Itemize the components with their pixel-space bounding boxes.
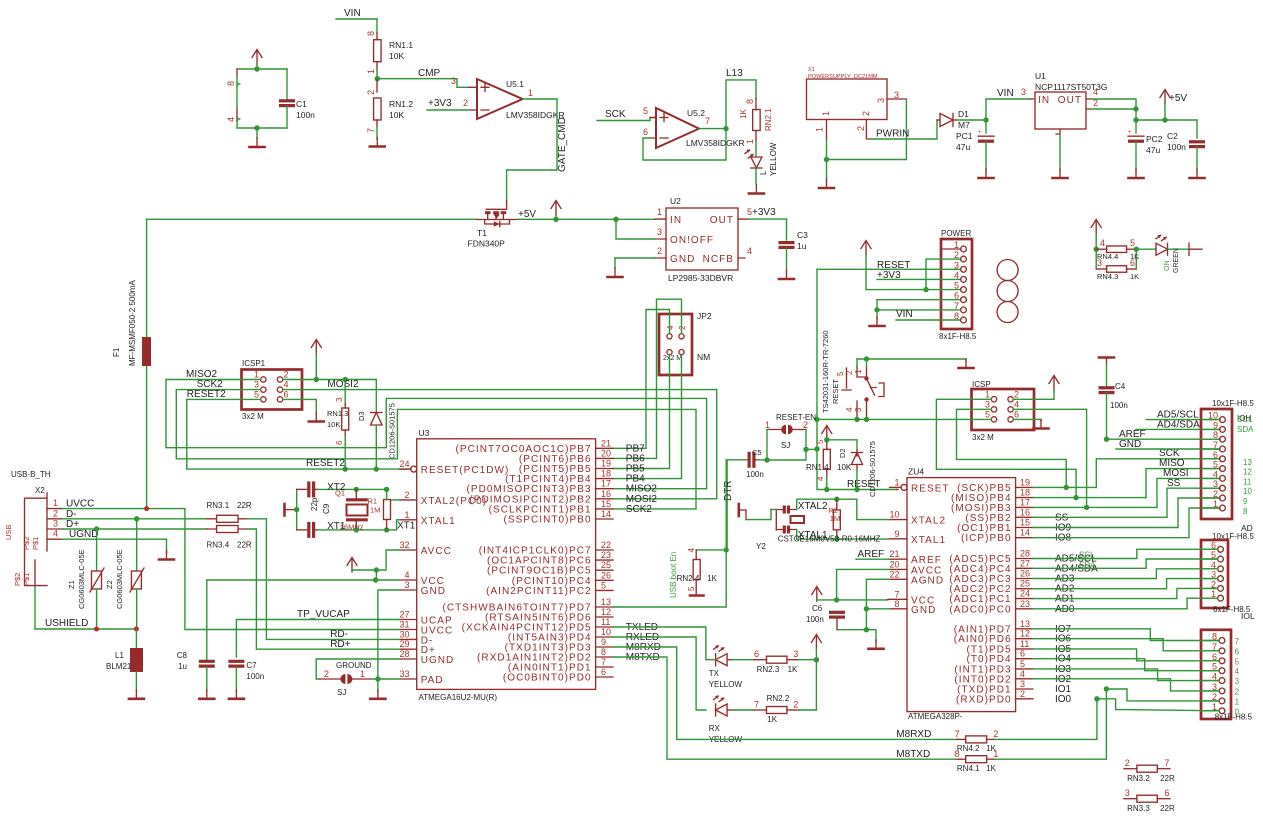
svg-text:RX: RX xyxy=(709,724,721,733)
wire ZU4 agnd xyxy=(864,579,890,632)
svg-text:U5.1: U5.1 xyxy=(506,79,524,89)
svg-text:8x1F-H8.5: 8x1F-H8.5 xyxy=(939,332,977,341)
net label AD5/SCL (hdr) xyxy=(1146,410,1220,421)
svg-text:4: 4 xyxy=(954,270,959,280)
svg-text:11: 11 xyxy=(601,617,610,627)
wire SCK2 loop xyxy=(176,390,696,509)
svg-text:Z1: Z1 xyxy=(67,580,76,589)
resistor RN4.3 xyxy=(1096,258,1139,281)
net label RESET (power hdr) xyxy=(817,260,941,271)
svg-text:M8RXD: M8RXD xyxy=(896,729,931,740)
ground L1 xyxy=(129,690,144,699)
svg-text:18: 18 xyxy=(1020,488,1030,498)
wire +5V rail right xyxy=(1133,117,1197,122)
svg-text:9: 9 xyxy=(1243,497,1248,506)
connector POWER 8x1F-H8.5 xyxy=(939,229,977,341)
wire button top gnd xyxy=(857,356,966,366)
net label AREF (zu4) xyxy=(856,549,890,560)
svg-text:RN2.1: RN2.1 xyxy=(764,108,773,131)
svg-text:IO0: IO0 xyxy=(1055,694,1072,705)
svg-text:33: 33 xyxy=(399,669,409,679)
svg-text:FDN340P: FDN340P xyxy=(468,239,506,249)
svg-text:10K: 10K xyxy=(837,463,852,472)
svg-text:8: 8 xyxy=(954,311,959,321)
power flag +5V (RN1.4) xyxy=(822,426,832,444)
svg-text:ICSP1: ICSP1 xyxy=(242,359,266,368)
svg-text:8: 8 xyxy=(1243,507,1248,516)
svg-text:GATE_CMD: GATE_CMD xyxy=(557,117,568,172)
svg-text:ZU4: ZU4 xyxy=(908,467,924,477)
wire AD1 net xyxy=(1033,588,1218,598)
svg-text:1K: 1K xyxy=(986,764,996,773)
ground PC2 xyxy=(1129,169,1144,178)
svg-text:4: 4 xyxy=(1093,87,1098,97)
svg-text:27: 27 xyxy=(399,610,409,620)
svg-text:SS: SS xyxy=(1167,478,1181,489)
svg-text:8: 8 xyxy=(366,31,376,36)
svg-text:2: 2 xyxy=(404,490,409,500)
resistor R2 xyxy=(828,499,840,539)
svg-text:1K: 1K xyxy=(767,715,777,724)
capacitor PC1 xyxy=(956,120,994,170)
mcu ZU4 ATMEGA328P xyxy=(889,467,1098,721)
svg-text:11: 11 xyxy=(1020,639,1029,649)
svg-text:VIN: VIN xyxy=(344,8,361,19)
resistor RN3.4 xyxy=(207,526,252,550)
svg-text:USB-B_TH: USB-B_TH xyxy=(11,470,51,479)
svg-text:3: 3 xyxy=(985,399,990,409)
svg-text:SDA: SDA xyxy=(1237,425,1254,434)
svg-text:16MHz: 16MHz xyxy=(340,523,364,532)
svg-text:OUT: OUT xyxy=(710,215,734,226)
svg-text:U3: U3 xyxy=(419,428,430,438)
ground X1 xyxy=(819,179,834,188)
svg-text:AREF: AREF xyxy=(858,549,885,560)
svg-text:P$1: P$1 xyxy=(22,573,31,586)
net label MISO2 (icsp1) xyxy=(166,369,261,380)
mounting hole 2 xyxy=(997,281,1018,302)
svg-text:CG0603MLC-05E: CG0603MLC-05E xyxy=(115,549,124,609)
svg-text:21: 21 xyxy=(601,438,611,448)
transistor T1 FDN340P xyxy=(468,201,517,249)
wire U2 gnd xyxy=(615,258,655,268)
svg-text:1K: 1K xyxy=(788,665,798,674)
svg-text:4: 4 xyxy=(845,407,854,412)
svg-text:UGND: UGND xyxy=(421,655,455,666)
svg-text:+3V3: +3V3 xyxy=(752,207,776,218)
node CMP junction xyxy=(375,70,380,81)
wire AD3 net xyxy=(1033,569,1218,579)
wire DTR xyxy=(723,460,740,550)
wire M8RXD xyxy=(613,647,957,740)
svg-text:(RXD)PD0: (RXD)PD0 xyxy=(956,694,1012,705)
svg-text:TS42031-160R-TR-7260: TS42031-160R-TR-7260 xyxy=(821,330,830,413)
svg-text:ATMEGA328P-: ATMEGA328P- xyxy=(908,712,963,721)
svg-text:XTAL2: XTAL2 xyxy=(798,501,828,512)
svg-text:2: 2 xyxy=(993,729,998,739)
svg-text:3: 3 xyxy=(1020,679,1025,689)
svg-text:SCL: SCL xyxy=(1237,415,1253,424)
wire AD0 net xyxy=(1033,598,1218,609)
svg-text:1: 1 xyxy=(954,240,959,250)
wire MISO net xyxy=(1033,458,1220,500)
svg-text:7: 7 xyxy=(894,589,899,599)
net alias SCL xyxy=(1079,551,1095,560)
svg-text:C3: C3 xyxy=(797,230,808,240)
svg-text:10: 10 xyxy=(1243,487,1252,496)
net TP_VUCAP xyxy=(236,609,399,657)
wire ZU4 avcc xyxy=(834,569,890,602)
svg-text:22: 22 xyxy=(889,569,899,579)
svg-text:CSTCE16M0V53-R0 16MHZ: CSTCE16M0V53-R0 16MHZ xyxy=(778,535,881,544)
resistor RN2.2 xyxy=(733,694,816,724)
net label CMP xyxy=(377,68,469,87)
svg-text:4: 4 xyxy=(1020,669,1025,679)
resistor RN3.1 xyxy=(207,501,252,522)
svg-text:26: 26 xyxy=(1020,569,1030,579)
svg-text:7: 7 xyxy=(1235,637,1240,646)
power flag +5V (rail) xyxy=(518,201,561,221)
svg-text:GREEN: GREEN xyxy=(1173,248,1180,273)
svg-text:4: 4 xyxy=(53,529,58,539)
svg-text:7: 7 xyxy=(955,729,960,739)
wire AD2 net xyxy=(1033,579,1218,589)
svg-text:XT1: XT1 xyxy=(397,521,416,532)
svg-text:2: 2 xyxy=(1125,758,1130,768)
wire MOSI2 drop xyxy=(613,390,717,499)
svg-text:+: + xyxy=(1128,130,1132,136)
svg-text:22R: 22R xyxy=(237,541,252,550)
svg-text:ON!OFF: ON!OFF xyxy=(670,235,714,246)
diode D1 xyxy=(937,109,970,130)
svg-text:SJ: SJ xyxy=(781,441,790,450)
mounting hole 3 xyxy=(997,302,1018,323)
svg-text:18: 18 xyxy=(601,469,611,479)
svg-text:8: 8 xyxy=(601,647,606,657)
svg-text:AGND: AGND xyxy=(911,575,944,586)
mcu U3 ATMEGA16U2 xyxy=(399,428,660,702)
net label VIN (U1 in) xyxy=(986,88,1030,120)
svg-text:7: 7 xyxy=(754,700,759,710)
svg-text:3: 3 xyxy=(451,76,456,86)
wire IO6 net xyxy=(1033,639,1219,651)
svg-text:MF-MSMF050-2 500mA: MF-MSMF050-2 500mA xyxy=(128,280,137,366)
net XT2 xyxy=(318,482,389,498)
net RD+ xyxy=(247,529,400,650)
svg-text:6: 6 xyxy=(1020,649,1025,659)
wire RN4.1 to IO1 xyxy=(995,686,1109,759)
svg-text:10K: 10K xyxy=(389,51,404,61)
ground LED L xyxy=(749,185,764,194)
ground icsp1 xyxy=(309,413,324,422)
svg-text:3: 3 xyxy=(854,407,863,412)
svg-text:28: 28 xyxy=(1020,549,1030,559)
led ON termination xyxy=(1189,243,1202,256)
ground icsp xyxy=(1034,420,1049,429)
svg-text:25: 25 xyxy=(1020,579,1030,589)
svg-text:4: 4 xyxy=(1213,469,1218,479)
net label SCK2 (icsp1) xyxy=(176,379,260,390)
svg-text:ATMEGA16U2-MU(R): ATMEGA16U2-MU(R) xyxy=(419,693,498,702)
svg-text:PC2: PC2 xyxy=(1146,134,1163,144)
wire RESET row xyxy=(814,417,869,422)
net alias SDA xyxy=(1079,560,1096,569)
svg-text:22R: 22R xyxy=(237,501,252,510)
resistor RN1.2 xyxy=(366,79,413,139)
svg-text:10x1F-H8.5: 10x1F-H8.5 xyxy=(1212,399,1254,408)
svg-text:4: 4 xyxy=(284,380,289,390)
svg-text:6: 6 xyxy=(1014,409,1019,419)
net label RESET2 (icsp1) xyxy=(187,389,261,400)
svg-text:3: 3 xyxy=(254,380,259,390)
svg-text:11: 11 xyxy=(1243,477,1252,486)
svg-text:1: 1 xyxy=(254,370,259,380)
svg-text:2: 2 xyxy=(284,370,289,380)
svg-text:(OC0BINT0)PD0: (OC0BINT0)PD0 xyxy=(503,673,592,684)
wire icsp RESET pin5 xyxy=(867,418,992,420)
capacitor C5 xyxy=(740,448,767,479)
svg-text:X1: X1 xyxy=(808,67,815,73)
svg-text:1: 1 xyxy=(821,111,831,116)
wire IO7 net xyxy=(1033,629,1219,641)
varistor Z1 xyxy=(67,529,104,629)
svg-text:RN1.1: RN1.1 xyxy=(389,40,413,50)
svg-text:VIN: VIN xyxy=(896,309,913,320)
net RD- xyxy=(247,519,400,640)
svg-text:C4: C4 xyxy=(1115,382,1126,391)
wire JP2 pin2 to PB6 xyxy=(613,299,682,458)
svg-text:Y2: Y2 xyxy=(756,542,766,551)
wire JP2 pin1 to PB7 xyxy=(613,310,670,449)
svg-text:25: 25 xyxy=(601,560,611,570)
svg-text:P$2: P$2 xyxy=(13,573,22,586)
svg-text:9: 9 xyxy=(1213,420,1218,430)
svg-text:1: 1 xyxy=(360,669,365,679)
wire RXLED xyxy=(613,637,706,710)
svg-text:8: 8 xyxy=(955,749,960,759)
svg-text:C2: C2 xyxy=(1167,131,1178,141)
ground C3 xyxy=(779,270,794,279)
svg-text:RESET2: RESET2 xyxy=(187,389,226,400)
svg-text:5: 5 xyxy=(601,580,606,590)
svg-text:RN3.1: RN3.1 xyxy=(207,501,230,510)
svg-text:+5V: +5V xyxy=(518,209,536,220)
svg-text:15: 15 xyxy=(1020,518,1030,528)
svg-text:RN1.3: RN1.3 xyxy=(327,409,348,418)
LED TX yellow xyxy=(706,645,743,689)
svg-text:9: 9 xyxy=(601,637,606,647)
wire IO8 net xyxy=(1033,508,1220,538)
svg-text:XTAL2: XTAL2 xyxy=(911,516,946,527)
net UVCC xyxy=(62,499,400,630)
svg-text:USHIELD: USHIELD xyxy=(45,618,88,629)
svg-text:4: 4 xyxy=(1100,238,1105,248)
svg-text:T1: T1 xyxy=(477,228,487,238)
capacitor C6 xyxy=(806,604,845,630)
ground U3 gnd xyxy=(370,690,385,699)
svg-text:1u: 1u xyxy=(797,241,807,251)
svg-text:U5.2: U5.2 xyxy=(687,108,705,118)
resistor RN2.3 xyxy=(733,649,816,674)
svg-text:DTR: DTR xyxy=(723,480,734,501)
svg-text:1: 1 xyxy=(985,389,990,399)
svg-text:10K: 10K xyxy=(389,110,404,120)
wire JP2 pin4 to PB4 xyxy=(613,355,682,479)
net VCC U3 xyxy=(207,577,400,582)
wire RESET2 row xyxy=(187,399,411,471)
svg-text:RN1.4: RN1.4 xyxy=(806,463,829,472)
svg-text:13: 13 xyxy=(1243,458,1252,467)
net XTAL1 xyxy=(778,530,889,544)
svg-text:1M: 1M xyxy=(370,506,380,515)
svg-text:100n: 100n xyxy=(746,470,764,479)
svg-text:2: 2 xyxy=(861,111,871,116)
svg-text:(ICP)PB0: (ICP)PB0 xyxy=(961,533,1012,544)
svg-text:5: 5 xyxy=(1235,657,1240,666)
svg-text:C9: C9 xyxy=(322,503,331,514)
wire PAD row xyxy=(372,678,400,680)
wire C6 gnd xyxy=(837,630,876,641)
svg-text:RN4.1: RN4.1 xyxy=(957,764,980,773)
svg-text:19: 19 xyxy=(1020,477,1030,487)
svg-text:TX: TX xyxy=(709,669,720,678)
resistor RN4.1 xyxy=(955,749,999,773)
svg-text:8: 8 xyxy=(1213,430,1218,440)
svg-text:XTAL1: XTAL1 xyxy=(911,535,946,546)
svg-text:13: 13 xyxy=(1020,619,1030,629)
svg-text:GND: GND xyxy=(911,605,936,616)
svg-text:4: 4 xyxy=(1235,667,1240,676)
svg-text:16: 16 xyxy=(601,489,611,499)
svg-text:3: 3 xyxy=(894,90,899,100)
svg-text:L13: L13 xyxy=(726,68,743,79)
svg-text:14: 14 xyxy=(601,509,611,519)
svg-text:USB boot En: USB boot En xyxy=(669,552,678,598)
svg-text:12: 12 xyxy=(601,607,611,617)
svg-text:POWER: POWER xyxy=(941,229,971,238)
svg-text:LMV358IDGKR: LMV358IDGKR xyxy=(506,110,565,120)
wire icsp pin6 gnd xyxy=(1013,419,1041,421)
svg-text:Z2: Z2 xyxy=(105,580,114,589)
net label +3V3 (U2 out) xyxy=(749,207,787,219)
svg-text:10: 10 xyxy=(1208,411,1218,421)
net UGND xyxy=(62,529,167,553)
svg-text:3: 3 xyxy=(404,580,409,590)
wire MOSI net xyxy=(1033,468,1220,510)
svg-text:RN3.2: RN3.2 xyxy=(1127,774,1150,783)
wire U5.2 feedback xyxy=(643,129,726,160)
svg-text:5: 5 xyxy=(954,281,959,291)
svg-text:22R: 22R xyxy=(1160,774,1175,783)
svg-text:4: 4 xyxy=(1014,399,1019,409)
svg-text:6: 6 xyxy=(1213,450,1218,460)
wire icsp SCK col xyxy=(957,409,1067,487)
wire IO1 net xyxy=(1106,689,1219,701)
svg-text:USB: USB xyxy=(4,525,13,540)
wire SS net xyxy=(1033,478,1220,517)
svg-text:22: 22 xyxy=(601,540,611,550)
svg-text:MOSI2: MOSI2 xyxy=(327,379,359,390)
svg-text:2: 2 xyxy=(1014,389,1019,399)
wire GATE_CMD xyxy=(507,99,568,201)
resistor RN3.3 xyxy=(1124,788,1175,813)
power flag +5V (zu4 vcc) xyxy=(812,587,890,602)
wire PD7 to DTR xyxy=(613,460,729,607)
svg-text:2: 2 xyxy=(366,90,376,95)
svg-text:RESET(PC1DW): RESET(PC1DW) xyxy=(421,465,510,476)
svg-text:LP2985-33DBVR: LP2985-33DBVR xyxy=(668,273,733,283)
wire SCK2 row xyxy=(613,508,696,510)
svg-text:24: 24 xyxy=(399,459,409,469)
wire IO2 net xyxy=(1033,679,1219,691)
svg-text:1: 1 xyxy=(1235,697,1240,706)
svg-text:5: 5 xyxy=(687,586,696,591)
svg-text:27: 27 xyxy=(1020,558,1030,568)
svg-text:1: 1 xyxy=(53,498,58,508)
ground C2 xyxy=(1190,169,1205,178)
svg-text:17: 17 xyxy=(1020,497,1030,507)
svg-text:ON: ON xyxy=(1164,261,1171,272)
svg-text:YELLOW: YELLOW xyxy=(709,680,743,689)
wire ZU4 xtal2 xyxy=(888,519,889,521)
mounting hole 1 xyxy=(997,260,1018,281)
svg-text:TP_VUCAP: TP_VUCAP xyxy=(297,609,350,620)
svg-text:20: 20 xyxy=(601,448,611,458)
net label SCK xyxy=(597,109,656,121)
svg-text:13: 13 xyxy=(601,597,611,607)
svg-text:1: 1 xyxy=(993,749,998,759)
wire XTAL1 to U3 xyxy=(387,520,416,532)
wire M8TXD xyxy=(613,657,957,760)
wire U5.2 out to L13 xyxy=(699,68,756,131)
svg-text:6: 6 xyxy=(954,291,959,301)
svg-text:1u: 1u xyxy=(178,662,187,671)
svg-text:1M: 1M xyxy=(830,514,840,523)
button RESET TS42031 xyxy=(821,330,884,419)
svg-text:4: 4 xyxy=(404,570,409,580)
resistor RN2.1 xyxy=(739,98,773,144)
svg-text:3: 3 xyxy=(657,227,662,237)
svg-text:L1: L1 xyxy=(115,651,124,660)
svg-text:1: 1 xyxy=(1213,499,1218,509)
svg-text:C5: C5 xyxy=(752,448,762,457)
diode D2 xyxy=(827,440,877,497)
svg-text:1: 1 xyxy=(854,369,863,374)
resistor RN4.2 xyxy=(955,729,999,753)
svg-text:RN1.2: RN1.2 xyxy=(389,99,413,109)
capacitor C4 xyxy=(1099,358,1128,440)
svg-text:3: 3 xyxy=(335,397,344,402)
diode D3 xyxy=(357,380,397,470)
wire icsp MOSI col xyxy=(1013,409,1086,507)
svg-text:C1: C1 xyxy=(296,99,307,109)
svg-text:1: 1 xyxy=(366,69,376,74)
ground C6 xyxy=(869,640,884,649)
svg-text:7: 7 xyxy=(601,657,606,667)
svg-text:31: 31 xyxy=(399,620,409,630)
svg-text:5: 5 xyxy=(816,439,825,444)
svg-text:3: 3 xyxy=(1235,677,1240,686)
capacitor C9b 22p xyxy=(297,522,318,538)
svg-text:6: 6 xyxy=(601,667,606,677)
svg-text:7: 7 xyxy=(1213,440,1218,450)
svg-text:23: 23 xyxy=(1020,599,1030,609)
net label PWRIN xyxy=(870,120,937,140)
connector JP2 xyxy=(659,311,712,375)
svg-text:XTAL1: XTAL1 xyxy=(421,516,456,527)
svg-text:SCK: SCK xyxy=(605,109,626,120)
svg-text:10K: 10K xyxy=(327,420,340,429)
